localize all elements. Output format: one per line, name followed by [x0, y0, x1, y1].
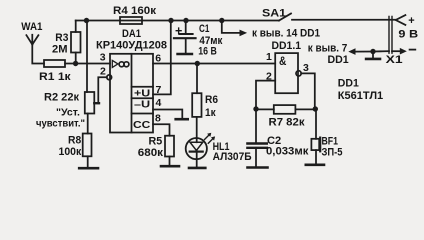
svg-text:8: 8 — [155, 113, 161, 125]
wire pin 8 to R5 — [153, 124, 170, 135]
wire R2 wiper to pin2 — [98, 77, 107, 103]
svg-text:R1 1к: R1 1к — [39, 71, 71, 83]
pin 2 inverting circle — [107, 75, 112, 80]
node R6 top — [195, 61, 200, 66]
svg-text:К561ТЛ1: К561ТЛ1 — [338, 90, 383, 102]
resistor R8 — [59, 134, 92, 159]
svg-text:680к: 680к — [138, 147, 164, 159]
wire R3 bottom — [75, 53, 77, 64]
node junction R1/R3 — [73, 61, 78, 66]
ground R8 — [79, 167, 98, 170]
ground X1 — [366, 52, 380, 59]
svg-text:0,033мк: 0,033мк — [266, 145, 309, 157]
wire bottom minus rail — [373, 50, 389, 52]
wire R7 right — [295, 108, 315, 110]
resistor R7 — [269, 105, 306, 128]
svg-text:R7 82к: R7 82к — [269, 117, 306, 129]
svg-text:100к: 100к — [59, 146, 82, 158]
svg-text:4: 4 — [156, 97, 162, 109]
DD1.1 output circle — [296, 71, 301, 76]
capacitor C1 — [174, 21, 223, 58]
ground HL1 — [189, 167, 205, 170]
svg-text:R4 160к: R4 160к — [113, 5, 157, 17]
svg-text:+: + — [175, 24, 182, 38]
svg-text:R5: R5 — [149, 136, 163, 148]
wire node to R6 — [196, 64, 198, 94]
ground R5 — [161, 165, 179, 168]
svg-text:CC: CC — [133, 119, 151, 131]
node rail / k vyv 14 — [219, 18, 224, 23]
LED HL1 — [186, 133, 252, 167]
svg-text:X1: X1 — [386, 54, 403, 66]
svg-text:+U: +U — [134, 87, 150, 99]
wire R2 riser — [86, 21, 88, 93]
wire R7 left — [256, 108, 274, 110]
resistor R5 — [138, 136, 174, 160]
wire node to BF1 — [315, 109, 317, 139]
arrow to pin 7 DD1 — [308, 43, 373, 66]
wire DD1.1 pin2 loop — [256, 81, 275, 109]
svg-text:3: 3 — [100, 52, 106, 64]
switch SA1 — [262, 8, 396, 21]
svg-text:1: 1 — [266, 51, 272, 63]
resistor R6 — [192, 93, 218, 119]
node R7 left — [253, 106, 258, 111]
svg-text:2М: 2М — [52, 43, 68, 55]
svg-text:+: + — [408, 15, 414, 27]
wire pin 4 to ground — [153, 110, 182, 119]
resistor R2 (trimmer) — [36, 92, 99, 130]
antenna WA1 — [21, 21, 42, 45]
svg-text:–U: –U — [134, 99, 150, 111]
wire R3 top to rail — [75, 21, 77, 33]
X1 bottom contact arrow — [392, 48, 407, 55]
wire pin 6 output — [153, 63, 275, 65]
svg-text:R8: R8 — [68, 135, 81, 147]
svg-text:WA1: WA1 — [21, 21, 42, 33]
node rail/pin7 — [168, 18, 173, 23]
svg-text:C1: C1 — [199, 23, 209, 35]
label DD1 type — [338, 78, 383, 102]
svg-text:DD1: DD1 — [328, 54, 349, 66]
wire R1 to pin3 DA1 — [65, 63, 110, 65]
wire top rail left — [76, 20, 279, 22]
X1 top contact fork — [396, 15, 406, 25]
svg-text:КР140УД1208: КР140УД1208 — [96, 40, 167, 52]
wire R5 to ground — [169, 157, 171, 166]
wire R2 to R8 — [87, 114, 89, 134]
svg-text:ЗП-5: ЗП-5 — [322, 146, 343, 158]
resistor R4 — [113, 5, 157, 24]
wire pin 7 riser to rail — [153, 21, 171, 95]
op-amp DA1 — [96, 28, 167, 133]
wire R6 to LED — [196, 117, 198, 138]
svg-text:АЛ307Б: АЛ307Б — [213, 151, 252, 163]
svg-text:R3: R3 — [55, 32, 68, 44]
connector X1 double line — [389, 17, 392, 54]
wire R8 to ground — [87, 156, 89, 167]
wire node to C2 — [255, 109, 257, 142]
svg-text:2: 2 — [100, 66, 106, 78]
svg-text:DA1: DA1 — [122, 28, 141, 40]
svg-text:3: 3 — [303, 62, 309, 74]
node minus/ground — [370, 49, 375, 54]
wire DD1.1 output — [301, 73, 315, 109]
svg-text:&: & — [279, 56, 286, 68]
svg-text:чувствит.": чувствит." — [36, 118, 85, 130]
logic gate DD1.1 — [272, 40, 302, 93]
svg-text:9 В: 9 В — [398, 28, 418, 40]
capacitor C2 — [247, 135, 309, 167]
svg-text:DD1.1: DD1.1 — [272, 40, 302, 52]
wire antenna to R1 — [32, 45, 44, 64]
svg-text:1к: 1к — [205, 107, 216, 119]
svg-text:R2 22к: R2 22к — [44, 92, 79, 104]
label minus — [410, 49, 416, 51]
ground C2 — [248, 166, 268, 169]
svg-text:6: 6 — [155, 52, 161, 64]
ground pin4 — [176, 118, 188, 121]
arrow to pin 14 DD1 — [222, 21, 320, 40]
resistor R1 — [39, 60, 71, 83]
ground BF1 — [306, 164, 324, 167]
svg-text:DD1: DD1 — [338, 78, 359, 90]
node rail/R2 riser — [84, 18, 89, 23]
node rail/C1 — [183, 18, 188, 23]
resistor R3 — [52, 32, 81, 55]
svg-text:к выв. 14 DD1: к выв. 14 DD1 — [252, 27, 320, 39]
buzzer BF1 — [311, 135, 342, 164]
svg-text:16 В: 16 В — [198, 46, 217, 58]
svg-text:SA1: SA1 — [262, 8, 286, 20]
node R7 right — [313, 106, 318, 111]
svg-text:к выв. 7: к выв. 7 — [308, 43, 348, 55]
svg-text:R6: R6 — [205, 94, 218, 106]
